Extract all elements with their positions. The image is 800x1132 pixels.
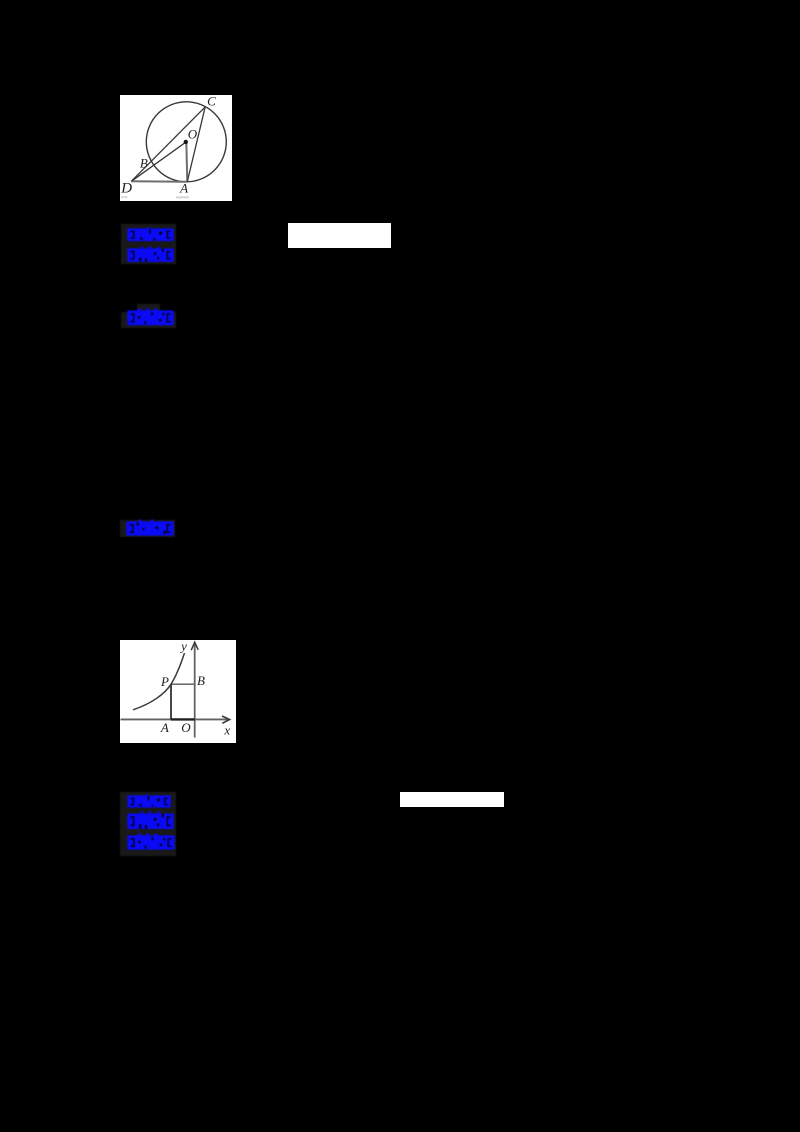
- svg-text:C: C: [207, 95, 216, 108]
- svg-text:x: x: [223, 722, 230, 737]
- svg-text:A: A: [160, 720, 169, 735]
- svg-text:B: B: [197, 673, 205, 688]
- svg-text:y: y: [179, 640, 187, 653]
- svg-text:P: P: [160, 674, 169, 689]
- svg-text:D: D: [120, 181, 132, 197]
- svg-text:B: B: [140, 155, 148, 170]
- svg-text:O: O: [188, 126, 198, 141]
- svg-text:O: O: [181, 720, 191, 735]
- svg-text:A: A: [179, 181, 188, 196]
